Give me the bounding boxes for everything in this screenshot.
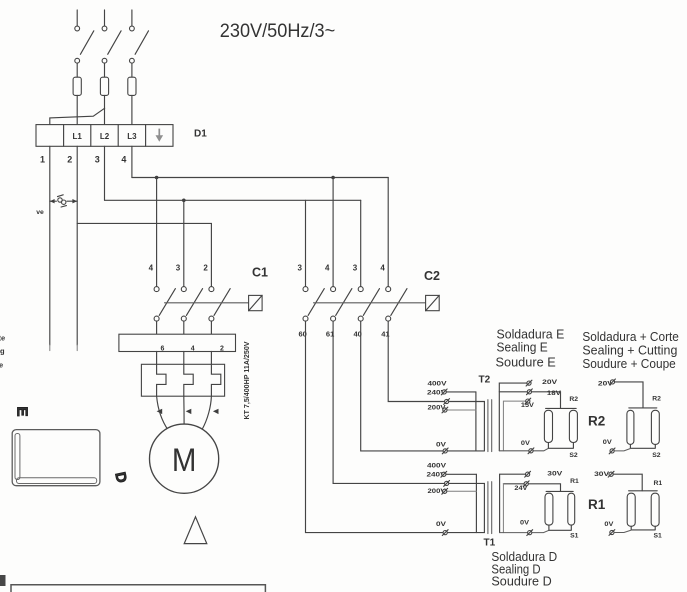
svg-text:24V: 24V (514, 485, 528, 492)
svg-text:S1: S1 (654, 533, 663, 540)
label 20V T2 (542, 379, 558, 386)
transformer T1 primary inner winding (483, 483, 485, 532)
resistor R2 element a (544, 410, 552, 442)
svg-text:Soudure D: Soudure D (491, 573, 551, 588)
transformer T2 secondary 0V line (499, 448, 548, 451)
clipped margin text line 3 (0, 360, 3, 369)
svg-text:e: e (0, 360, 3, 369)
transformer T1 secondary outer winding with 30V tap (500, 474, 526, 532)
standalone resistor R1 element a (627, 493, 635, 526)
annotation Soldadura E block (496, 327, 565, 370)
label ve (36, 209, 44, 216)
svg-text:D1: D1 (194, 129, 207, 140)
wire overload to motor phase 1 (157, 396, 169, 430)
label R1 terminal top (570, 478, 579, 485)
svg-text:0V: 0V (603, 439, 612, 446)
svg-text:D: D (111, 471, 129, 485)
wire drop to C1 pole 1 (156, 178, 158, 287)
terminal 0V standalone R2 (609, 448, 615, 454)
pedal label E (14, 407, 31, 417)
label R1 standalone top (654, 480, 663, 487)
svg-text:ve: ve (36, 209, 44, 216)
svg-text:T1: T1 (484, 537, 496, 548)
svg-text:4: 4 (380, 263, 385, 272)
svg-text:0V: 0V (520, 520, 529, 527)
svg-text:230V/50Hz/3~: 230V/50Hz/3~ (220, 21, 335, 42)
svg-text:R1: R1 (654, 480, 663, 487)
label S2 standalone bottom (652, 452, 661, 459)
resistor R1 top bar (546, 490, 573, 492)
wire overload to motor phase 2 (183, 396, 185, 424)
junction node on 177-line at C2 pole 2 (331, 176, 335, 180)
svg-text:0V: 0V (436, 441, 447, 448)
resistor R2 element b (569, 410, 577, 442)
svg-text:Soudure E: Soudure E (496, 354, 556, 369)
transformer T2 primary inner winding (483, 402, 485, 451)
terminal 30V far right (608, 471, 614, 477)
label R2 standalone top (652, 396, 661, 403)
resistor R1 element b (568, 493, 575, 525)
svg-text:0V: 0V (521, 440, 530, 447)
resistor R2 bottom bar (548, 443, 573, 449)
svg-text:20V: 20V (542, 379, 558, 386)
wire strip to overload pole 2 (183, 352, 185, 365)
transformer T2 core (488, 400, 492, 452)
wire C2 pole 3 to T2 0V (361, 321, 485, 451)
motor wire marker u (157, 409, 163, 414)
wire drop to C2 pole 3 (360, 200, 362, 286)
feed line from terminal 2 (77, 222, 211, 224)
wire 30V to standalone R1 (613, 474, 642, 491)
svg-text:2: 2 (203, 263, 208, 272)
label D1 (194, 129, 207, 140)
junction node on 177-line at C1 pole 1 (155, 176, 159, 180)
terminal 20V far right (610, 379, 616, 385)
fuse F1 (73, 77, 81, 124)
label 30V far right (594, 471, 610, 478)
svg-text:R1: R1 (588, 497, 606, 512)
label 0V T1 secondary (520, 520, 529, 527)
connector symbol on wire ve (50, 195, 77, 207)
standalone resistor R1 bottom bar (631, 526, 655, 530)
pedal label D (111, 471, 129, 485)
label S1 standalone bottom (654, 533, 663, 540)
annotation Soldadura D block (491, 549, 557, 588)
contactor C1 pole 3 (209, 287, 230, 322)
wire C2 pole 2 to T1 primary (333, 321, 484, 483)
transformer T2 secondary outer winding with 20V tap (499, 383, 526, 451)
label C1 (252, 265, 268, 279)
svg-text:3: 3 (353, 263, 358, 272)
contactor C1 pole 1 (154, 287, 175, 322)
svg-text:C2: C2 (424, 269, 440, 283)
transformer T1 secondary inner winding (502, 484, 504, 533)
label 18V T2 (547, 390, 562, 397)
svg-text:Soudure + Coupe: Soudure + Coupe (582, 356, 675, 371)
svg-text:KT 7,5/400HP 11A/250V: KT 7,5/400HP 11A/250V (244, 341, 251, 419)
terminal 0V standalone R1 (609, 530, 615, 536)
svg-text:S2: S2 (569, 452, 578, 459)
transformer T2 secondary inner winding 15V tap (503, 401, 525, 451)
margin smudge (0, 575, 6, 586)
contactor C1 coil box (249, 295, 263, 310)
supply label 230V/50Hz/3~ (220, 21, 335, 42)
wire from terminal 2 (76, 146, 78, 350)
standalone resistor R2 element b (651, 410, 659, 444)
switch Q1 pole 2 (102, 10, 121, 77)
clipped margin text line 1 (0, 333, 5, 342)
svg-text:L1: L1 (73, 132, 83, 141)
wire strip to overload pole 3 (210, 352, 212, 365)
junction node on 200-line at C1 pole 2 (182, 199, 186, 203)
wire from terminal 3 (104, 146, 106, 200)
svg-text:18V: 18V (547, 390, 562, 397)
svg-text:R1: R1 (570, 478, 579, 485)
svg-text:L2: L2 (100, 132, 110, 141)
overload heater element 3 (211, 364, 220, 396)
svg-text:L3: L3 (127, 132, 137, 141)
wire C1 pole 3 to strip (210, 321, 212, 334)
overload relay box (141, 364, 224, 396)
svg-text:3: 3 (297, 263, 302, 272)
label 0V T2 secondary (521, 440, 530, 447)
svg-text:2: 2 (67, 154, 72, 164)
svg-text:400V: 400V (428, 381, 448, 388)
svg-text:400V: 400V (427, 462, 447, 469)
terminal T2 secondary 15V (525, 398, 531, 404)
wire from terminal 1 (49, 146, 51, 350)
svg-text:0V: 0V (436, 521, 447, 528)
overload heater element 1 (157, 364, 166, 396)
motor wire marker v (186, 409, 192, 414)
clipped margin text line 2 (0, 347, 5, 356)
label 20V far right (598, 380, 614, 387)
transformer T1 primary terminal 400V label (427, 462, 447, 469)
label R2 terminal top (569, 396, 578, 403)
terminal T2 primary supply (444, 399, 450, 405)
fuse F3 (128, 77, 136, 124)
svg-text:30V: 30V (594, 471, 610, 478)
svg-text:R2: R2 (652, 396, 661, 403)
wire 0V to standalone R2 bottom (614, 449, 630, 451)
svg-text:T2: T2 (479, 375, 491, 386)
wire drop to C2 pole 1 (305, 200, 307, 286)
terminal T2 primary 240V (441, 389, 447, 395)
wire C2 pole 1 to T1 0V (306, 321, 485, 532)
transformer T2 primary terminal 200V label (428, 404, 447, 411)
label R2 big (588, 413, 605, 428)
terminal T2 secondary 0V (528, 448, 534, 454)
svg-text:4: 4 (325, 263, 330, 272)
svg-text:R2: R2 (588, 413, 605, 428)
foot pedal box (12, 430, 100, 486)
svg-text:E: E (14, 407, 31, 417)
label C2 (424, 269, 440, 283)
wire drop to C1 pole 3 (210, 223, 212, 286)
overload heater element 2 (184, 364, 193, 396)
svg-text:S2: S2 (652, 452, 661, 459)
title block top edge (11, 585, 265, 592)
terminal T1 primary 0V (442, 530, 448, 536)
svg-text:R2: R2 (569, 396, 578, 403)
motor M (150, 424, 219, 493)
svg-text:3: 3 (95, 154, 100, 164)
delta connection symbol (184, 517, 207, 544)
terminal T2 primary 200V (442, 407, 448, 413)
motor wire marker w (213, 409, 219, 414)
svg-text:30V: 30V (547, 471, 563, 478)
wire 0V to standalone R1 bottom (614, 530, 631, 532)
switch Q1 pole 3 (130, 10, 149, 77)
wire strip to overload pole 1 (156, 352, 158, 365)
contactor C2 pole 4 (386, 287, 407, 322)
contactor C2 coil box (426, 295, 440, 310)
transformer T1 primary terminal 240V label (427, 472, 447, 479)
resistor R2 top bar (546, 407, 577, 409)
transformer T1 primary 240V tap (446, 474, 476, 532)
svg-text:4: 4 (149, 263, 154, 272)
contactor C1 pole 2 (181, 287, 202, 322)
standalone resistor R1 top bar (629, 490, 658, 492)
wire C2 pole 4 to T2 primary (388, 321, 484, 401)
svg-text:15V: 15V (521, 402, 535, 409)
standalone resistor R2 element a (627, 410, 634, 444)
contactor C2 pole 2 (331, 287, 352, 322)
svg-text:C1: C1 (252, 265, 268, 279)
annotation Soldadura + Corte block (582, 329, 679, 371)
standalone resistor R2 bottom bar (630, 444, 655, 448)
wire C1 pole 2 to strip (183, 321, 185, 334)
label T1 (484, 537, 496, 548)
label S2 terminal bottom (569, 452, 578, 459)
switch Q1 pole 1 (75, 10, 94, 77)
label 0V standalone R2 (603, 439, 612, 446)
svg-text:1: 1 (40, 154, 45, 164)
wire drop to C2 pole 4 (387, 178, 389, 287)
terminal T1 secondary 24V (523, 481, 529, 487)
terminal T1 primary supply (444, 481, 450, 487)
terminal numbers 1 2 3 4 (40, 154, 126, 164)
wire overload to motor phase 3 (202, 396, 212, 430)
label 24V T1 (514, 485, 528, 492)
resistor R1 element a (545, 493, 553, 525)
link wire above terminal block (50, 108, 105, 124)
transformer T2 primary 240V tap (447, 392, 476, 451)
transformer T1 primary 0V label (436, 521, 447, 528)
svg-text:3: 3 (176, 263, 181, 272)
svg-text:g: g (0, 347, 5, 356)
svg-text:Sealing E: Sealing E (497, 339, 548, 354)
label S1 terminal bottom (570, 533, 579, 540)
contactor C2 pole 3 (358, 287, 379, 322)
transformer T2 secondary 18V tap to R2 (499, 392, 560, 409)
transformer T1 core (488, 482, 492, 534)
ground symbol in D1 (156, 129, 164, 142)
wire C1 pole 1 to strip (156, 321, 158, 334)
terminal T2 secondary 18V (527, 389, 533, 395)
transformer T2 primary 0V label (436, 441, 447, 448)
standalone resistor R2 top bar (629, 407, 657, 409)
label 0V standalone R1 (604, 521, 613, 528)
label R1 big (588, 497, 606, 512)
feed line from terminal 3 (105, 199, 361, 201)
fuse F2 (100, 77, 108, 124)
svg-text:te: te (0, 333, 5, 342)
transformer T2 primary terminal 400V label (428, 381, 448, 388)
transformer T2 primary terminal 240V label (427, 389, 447, 396)
resistor R1 bottom bar (549, 525, 571, 530)
contactor C2 pole 1 (303, 287, 324, 322)
terminal block D1 (36, 125, 173, 147)
terminal T1 secondary 30V (525, 471, 531, 477)
transformer T1 primary terminal 200V label (428, 488, 447, 495)
svg-text:6: 6 (161, 346, 165, 353)
wire drop to C1 pole 2 (183, 200, 185, 286)
motor rating vertical text (244, 341, 251, 419)
svg-text:2: 2 (220, 346, 224, 353)
feed line from terminal 4 (132, 177, 388, 179)
transformer T1 primary 200V tap (447, 490, 476, 492)
transformer T1 secondary 0V line (500, 530, 549, 532)
svg-text:S1: S1 (570, 533, 579, 540)
svg-text:4: 4 (121, 154, 126, 164)
terminal T1 primary 240V (441, 471, 447, 477)
svg-text:M: M (172, 442, 197, 478)
terminal T2 secondary 20V (526, 380, 532, 386)
label T2 (479, 375, 491, 386)
wire from terminal 4 (131, 146, 133, 177)
label 30V T1 (547, 471, 563, 478)
wire 20V to standalone R2 (615, 382, 643, 408)
terminal T1 secondary 0V (527, 530, 533, 536)
contactor C1 linkage (165, 302, 249, 304)
transformer T2 primary 200V tap (447, 409, 476, 411)
svg-text:4: 4 (191, 346, 195, 353)
motor terminal strip (119, 334, 236, 352)
contactor C1 pole terminal labels 4 3 2 (149, 263, 209, 272)
standalone resistor R1 element b (651, 493, 659, 526)
terminal T2 primary 0V (442, 448, 448, 454)
wire drop to C2 pole 2 (332, 178, 334, 287)
contactor C2 lower terminal labels 60 61 40 41 (299, 330, 390, 339)
transformer T1 secondary 24V tap to R1 (503, 484, 560, 492)
svg-text:0V: 0V (604, 521, 613, 528)
terminal T1 primary 200V (442, 488, 448, 494)
contactor C2 linkage (314, 302, 426, 304)
contactor C2 pole terminal labels 3 4 3 4 (297, 263, 385, 272)
label 15V T2 (521, 402, 535, 409)
